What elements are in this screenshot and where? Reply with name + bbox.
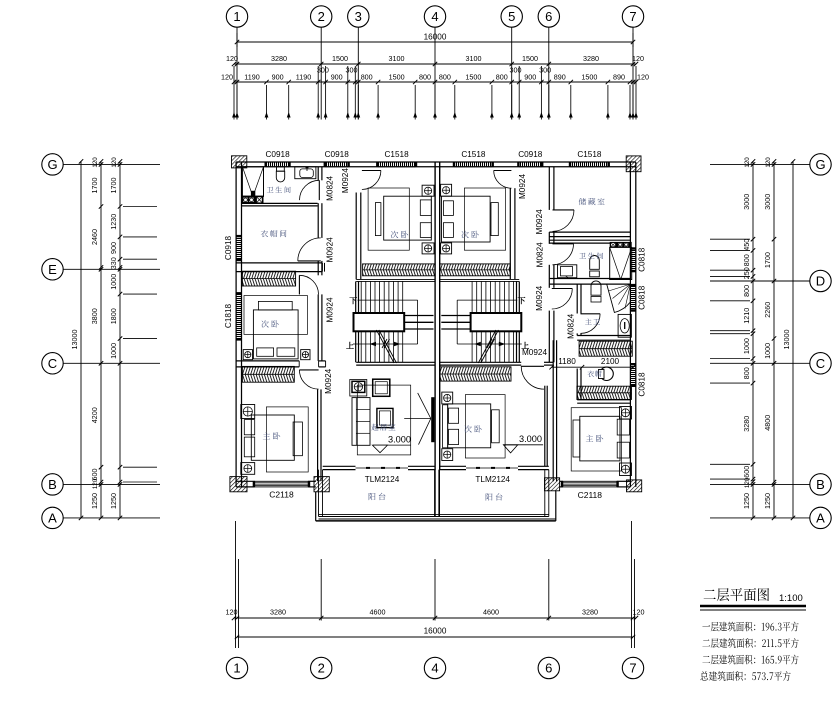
svg-text:M0924: M0924 [535,209,544,234]
wardrobe closet lower [577,386,632,393]
bed bottom-right bedroom [465,395,505,458]
svg-text:3000: 3000 [742,194,751,210]
stair-L south wall [356,361,435,363]
svg-text:1190: 1190 [244,73,259,82]
svg-text:主卫: 主卫 [585,318,601,328]
svg-text:120: 120 [221,73,233,82]
vanity left bathroom [241,196,263,204]
svg-text:C0818: C0818 [638,285,647,310]
C-axis wall left unit [236,360,299,362]
stair-L west wall [355,281,357,362]
svg-text:C2118: C2118 [269,490,294,500]
svg-text:3280: 3280 [582,608,598,617]
svg-text:C0918: C0918 [224,235,233,260]
svg-text:2: 2 [318,661,325,676]
svg-text:1250: 1250 [763,493,772,509]
svg-text:800: 800 [742,367,751,379]
sofa [352,398,370,446]
svg-text:C2118: C2118 [578,490,603,500]
living room cabinet square1 [350,380,367,397]
extension line arrowheads [232,112,236,118]
svg-text:4200: 4200 [90,407,99,423]
svg-text:120: 120 [637,73,649,82]
svg-text:900: 900 [331,73,343,82]
window C1818 west [237,294,242,339]
door M0924 bedroom top-right [494,170,512,172]
svg-text:M0924: M0924 [518,174,527,199]
svg-text:A: A [816,511,825,526]
top axis extension lines [236,27,238,120]
top dim row 3 [234,81,636,83]
staircase right side steps [441,315,470,317]
svg-text:M0924: M0924 [324,368,333,393]
svg-text:800: 800 [439,73,451,82]
svg-text:3100: 3100 [389,54,405,63]
svg-text:2260: 2260 [763,302,772,318]
svg-text:7: 7 [629,9,636,24]
door M0824 master bath [581,313,601,315]
svg-text:1:100: 1:100 [779,593,803,604]
svg-text:1: 1 [233,661,240,676]
svg-text:3.000: 3.000 [519,434,542,444]
svg-text:600: 600 [90,469,99,481]
top bedroom-R east wall [509,188,511,279]
bed top-left bedroom [368,188,409,250]
living room square2 [373,379,390,396]
corridor-L west wall segments [317,167,319,180]
svg-text:M0824: M0824 [536,242,545,267]
svg-text:6: 6 [545,661,552,676]
svg-text:120: 120 [92,478,99,489]
staircase left direction line [358,299,418,301]
svg-text:卫生间: 卫生间 [579,252,605,262]
svg-text:1250: 1250 [90,493,99,509]
svg-text:3800: 3800 [90,308,99,324]
living-L south wall with balcony door [323,465,356,467]
balcony walls [318,470,320,517]
bottom dim 16000 [237,636,633,638]
door M0824 bath-R [553,243,574,245]
door M0924 cloakroom [298,260,321,262]
svg-text:1000: 1000 [763,343,772,359]
svg-text:C1518: C1518 [461,150,486,159]
corner shower master bath [607,284,631,312]
svg-text:1250: 1250 [742,493,751,509]
svg-text:120: 120 [744,157,751,168]
window C2118 left [255,481,309,487]
svg-text:衣帽间: 衣帽间 [261,229,289,240]
svg-text:C0918: C0918 [518,150,543,159]
top bedroom-L west wall [355,193,357,280]
right axis circles [810,154,831,175]
svg-text:M0824: M0824 [325,175,334,200]
svg-text:1: 1 [233,9,240,24]
svg-text:TLM2124: TLM2124 [365,475,400,484]
svg-text:M0924: M0924 [325,297,334,322]
corner pier NW [232,156,247,168]
svg-text:次卧: 次卧 [461,230,481,241]
left extension lines [123,206,157,208]
closet walls right [576,369,578,400]
staircase left landing [354,313,405,331]
svg-text:阳台: 阳台 [368,492,388,503]
corridor-R east wall segments [548,167,550,210]
svg-text:C: C [816,356,825,371]
staircase right direction line [457,299,517,301]
svg-text:总建筑面积：573.7平方: 总建筑面积：573.7平方 [700,669,791,684]
bath-R south wall [550,278,631,280]
svg-text:6: 6 [545,9,552,24]
svg-text:1500: 1500 [389,73,405,82]
svg-text:1500: 1500 [332,54,348,63]
svg-text:120: 120 [632,54,644,63]
toilet right bathroom [590,256,600,270]
svg-text:TLM2124: TLM2124 [475,475,510,484]
tv feature wall symbol [418,393,431,419]
svg-text:120: 120 [633,608,645,617]
window C1518 top6 [571,162,608,166]
svg-text:3280: 3280 [583,54,599,63]
wardrobe top-right bedroom [440,264,511,270]
svg-text:阳台: 阳台 [485,492,505,503]
svg-text:300: 300 [539,66,551,75]
svg-text:3280: 3280 [271,54,287,63]
shower left bathroom [242,167,263,197]
svg-text:16000: 16000 [424,627,447,636]
svg-text:C0818: C0818 [638,372,647,397]
svg-text:3100: 3100 [466,54,482,63]
svg-text:120: 120 [111,157,118,168]
window C0818 east upper [631,249,636,270]
svg-text:1700: 1700 [109,178,118,194]
pier SW [230,477,247,492]
stair-R south wall + hall [440,361,522,363]
svg-text:13000: 13000 [70,330,79,350]
stair-R north wall [440,278,520,280]
door M0924 bedroom bottom-right [521,365,544,367]
bedroom-R south wall with balcony door [440,465,466,467]
master bath west wall [576,284,578,313]
corner pier NE [626,156,641,172]
bath-R north wall [549,239,630,241]
door M0824 bathroom-L [318,180,320,200]
svg-text:800: 800 [496,73,508,82]
bedroom-R east wall lower [544,386,546,467]
window jamb stubs sides/bottom [253,481,255,487]
svg-text:1000: 1000 [742,338,751,354]
living room rug outline [357,385,410,455]
bottom axis extension lines [320,559,322,621]
window C0918 top1 [267,162,289,166]
svg-text:800: 800 [361,73,373,82]
staircase left side steps [404,315,433,317]
svg-text:B: B [48,477,57,492]
pier balcony right [545,478,560,491]
wardrobe mid-left bedroom [242,271,295,278]
svg-text:1500: 1500 [465,73,481,82]
svg-text:M0924: M0924 [325,237,334,262]
svg-text:1250: 1250 [109,493,118,509]
svg-text:G: G [815,157,825,172]
svg-text:900: 900 [524,73,536,82]
exterior top wall [236,161,636,163]
top dim row 2 [234,63,636,65]
cloakroom south wall [236,262,322,264]
pier balcony left [314,477,329,492]
svg-text:3000: 3000 [763,194,772,210]
svg-text:次卧: 次卧 [464,424,484,435]
staircase right landing [471,313,522,331]
svg-text:600: 600 [742,466,751,478]
svg-text:二层建筑面积：165.9平方: 二层建筑面积：165.9平方 [702,653,799,668]
svg-text:1800: 1800 [109,308,118,324]
svg-text:1180: 1180 [558,357,576,366]
door M0924 hall-R [552,288,573,290]
sink counter left bathroom [295,167,316,179]
svg-text:起居室: 起居室 [371,422,397,433]
svg-text:1190: 1190 [296,73,311,82]
svg-text:4600: 4600 [483,608,499,617]
staircase right treads [513,281,515,313]
svg-text:C0818: C0818 [638,247,647,272]
svg-text:2: 2 [318,9,325,24]
door M0924 storage [553,209,575,211]
svg-text:M0824: M0824 [567,313,576,338]
wardrobe top-left bedroom [363,264,435,270]
svg-text:次卧: 次卧 [391,230,411,241]
svg-text:120: 120 [226,54,238,63]
balcony divider [434,470,436,517]
svg-text:上: 上 [521,341,529,352]
svg-text:300: 300 [510,66,522,75]
svg-text:1000: 1000 [109,343,118,359]
stair-R east wall [516,281,518,362]
pier SE [627,480,642,492]
svg-text:7: 7 [629,661,636,676]
svg-text:450: 450 [742,239,751,251]
window C0918 top5 [519,162,541,166]
svg-text:4600: 4600 [370,608,386,617]
left axis circles [42,154,63,175]
washbasin master bath [618,314,631,337]
right dim chains [752,161,754,518]
top dim row 16000 [237,41,633,43]
svg-text:A: A [48,511,57,526]
bottom dim row [234,617,636,619]
master-L east wall [317,389,319,481]
bottom wall right bedroom [560,480,563,482]
svg-text:C1518: C1518 [577,150,602,159]
staircase left treads [360,281,362,313]
master-R west wall [552,340,554,481]
stair-L north wall [356,278,435,280]
svg-text:2100: 2100 [601,357,620,366]
wardrobe bedroom bottom-right [440,367,511,374]
svg-text:16000: 16000 [424,33,447,42]
window C0918 top2 [326,162,348,166]
closet dim line [552,366,634,368]
svg-text:890: 890 [554,73,566,82]
staircase right break line [481,330,499,363]
svg-text:3: 3 [355,9,362,24]
window C2118 right [563,481,617,487]
bed master-right [571,408,621,471]
window C0818 east lower [631,365,636,385]
window C0818 east mid [631,286,636,310]
svg-text:120: 120 [765,157,772,168]
window C1518 top3 [378,162,415,166]
svg-text:4: 4 [431,9,438,24]
svg-text:下: 下 [518,296,526,307]
bottom axis circles [226,657,247,678]
svg-text:1700: 1700 [763,252,772,268]
svg-text:C: C [48,356,57,371]
svg-text:次卧: 次卧 [261,319,281,330]
svg-text:主卧: 主卧 [586,434,606,445]
center party wall [434,162,436,470]
door M0924 bedroom top-left [362,170,381,172]
closet light fixture [600,367,613,380]
exterior east wall [629,162,631,487]
master bath south wall [577,335,630,337]
svg-text:M0924: M0924 [341,168,350,193]
svg-text:800: 800 [419,73,431,82]
svg-text:3280: 3280 [270,608,286,617]
svg-text:330: 330 [109,257,118,269]
svg-text:3.000: 3.000 [388,434,411,444]
svg-text:1700: 1700 [90,178,99,194]
svg-text:M0924: M0924 [535,285,544,310]
wardrobe master-left [242,366,294,374]
svg-text:上: 上 [346,341,354,352]
svg-text:1000: 1000 [109,274,118,290]
svg-text:一层建筑面积：196.3平方: 一层建筑面积：196.3平方 [702,620,799,635]
svg-text:1500: 1500 [522,54,538,63]
washbasin right bathroom [558,265,577,278]
svg-text:C1518: C1518 [385,150,410,159]
svg-text:主卧: 主卧 [263,431,283,442]
svg-text:D: D [816,274,825,289]
svg-text:1230: 1230 [109,214,118,230]
svg-text:E: E [48,262,57,277]
svg-text:120: 120 [226,608,238,617]
svg-text:二层建筑面积：211.5平方: 二层建筑面积：211.5平方 [702,636,799,651]
window jamb stubs top [265,162,267,167]
svg-text:800: 800 [742,254,751,266]
svg-text:3280: 3280 [742,416,751,432]
svg-text:衣帽: 衣帽 [587,370,601,380]
svg-text:250: 250 [742,267,751,279]
svg-text:890: 890 [613,73,625,82]
door M0924 bedroom mid-left [298,275,300,294]
svg-text:800: 800 [742,285,751,297]
svg-text:4: 4 [431,661,438,676]
toilet master bath [591,281,601,295]
right extension lines [710,238,750,240]
left dim chains [80,161,82,518]
svg-text:二层平面图: 二层平面图 [703,584,770,605]
svg-text:1500: 1500 [581,73,597,82]
wardrobe closet upper [579,341,632,349]
svg-text:5: 5 [508,9,515,24]
svg-text:13000: 13000 [782,330,791,350]
exterior west wall [235,162,237,487]
storage south wall [549,231,630,233]
svg-text:1210: 1210 [742,308,751,324]
coffee table [377,408,393,427]
bathroom-L south wall [242,202,318,204]
bed top-right bedroom [464,188,505,250]
svg-text:2460: 2460 [90,229,99,245]
svg-text:C0918: C0918 [266,150,291,159]
svg-text:4800: 4800 [763,415,772,431]
svg-text:卫生间: 卫生间 [266,186,292,196]
bed mid-left bedroom [244,296,307,335]
svg-text:C0918: C0918 [325,150,350,159]
svg-text:G: G [47,157,57,172]
svg-text:900: 900 [109,242,118,254]
svg-text:储藏室: 储藏室 [579,197,607,208]
svg-text:B: B [816,477,825,492]
shower right bathroom [610,242,632,248]
staircase left break line [376,330,394,363]
window C0918 west [237,237,242,259]
door M0924 master-L [299,369,318,371]
bottom wall left bedroom [236,480,255,482]
svg-text:120: 120 [92,157,99,168]
toilet left bathroom [277,167,285,171]
svg-text:900: 900 [272,73,284,82]
svg-text:C1818: C1818 [224,303,233,328]
svg-text:300: 300 [317,66,329,75]
svg-text:下: 下 [349,296,357,307]
top axis circles 1-7 [226,6,247,27]
bed master-left [266,407,308,472]
window C1518 top4 [455,162,492,166]
